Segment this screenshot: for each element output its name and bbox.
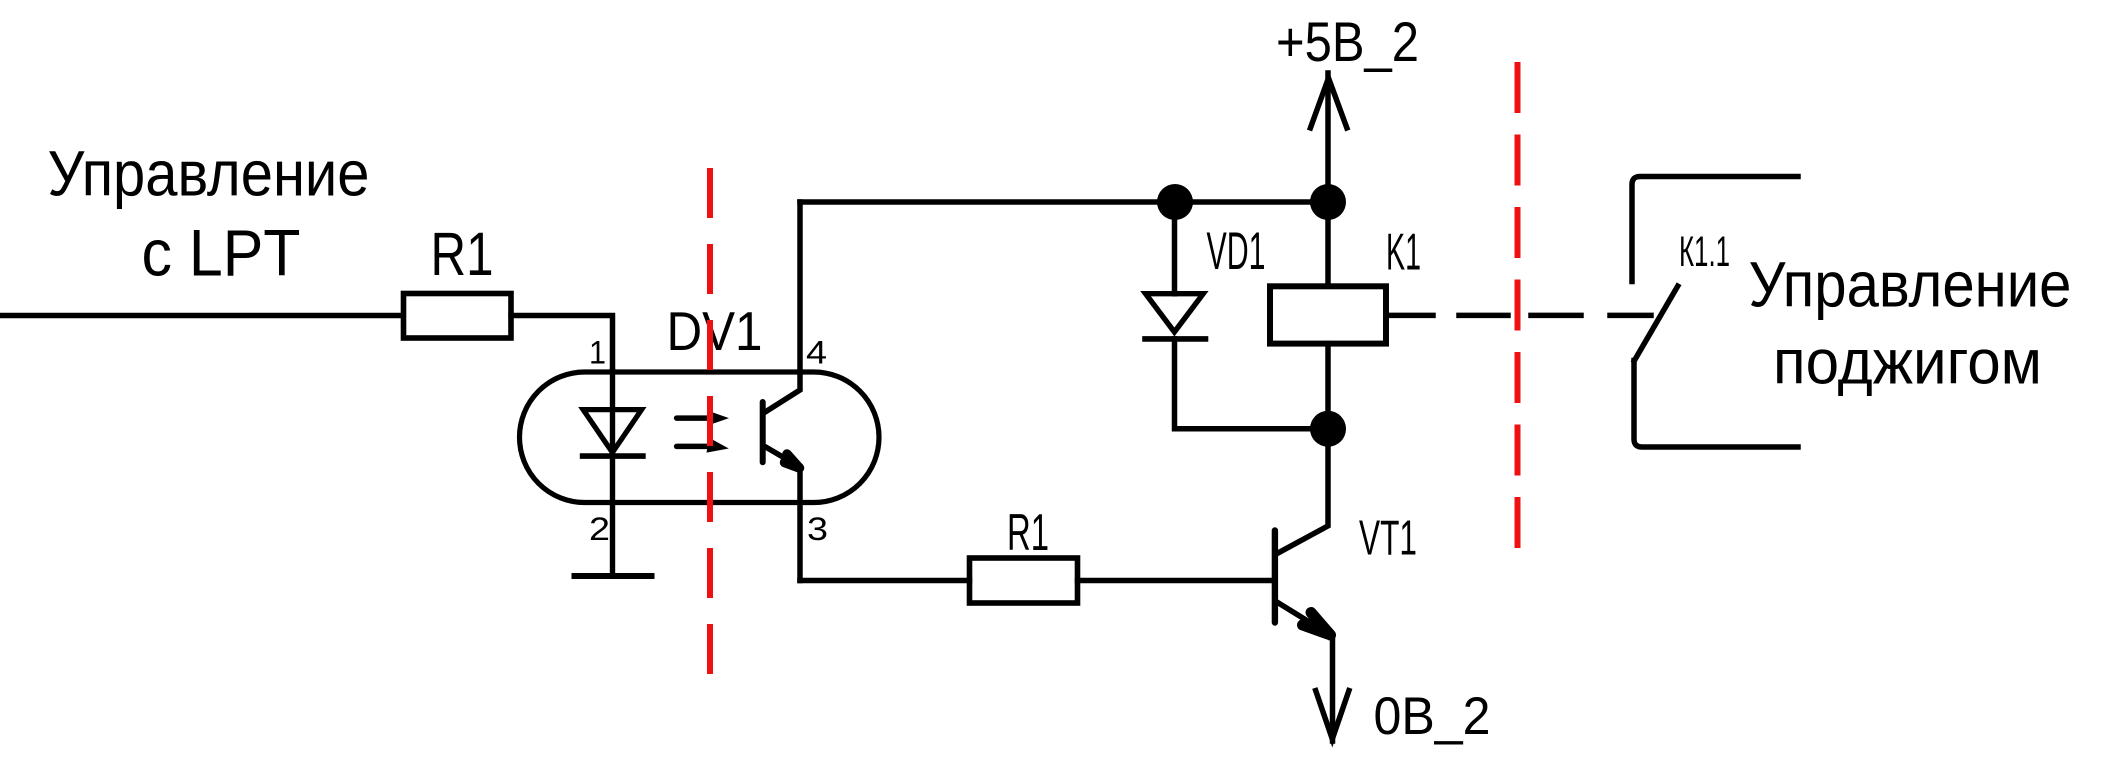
separator dashed red right	[1515, 62, 1521, 550]
light arrow lower	[677, 444, 707, 450]
ground	[575, 573, 652, 579]
junction node top-right	[1310, 184, 1346, 220]
light arrowhead upper	[707, 411, 729, 426]
diode VD1 triangle	[1146, 294, 1204, 332]
svg-text:VD1: VD1	[1207, 222, 1266, 281]
svg-text:Управление: Управление	[48, 138, 370, 210]
junction node top-left	[1157, 184, 1193, 220]
resistor R1 (base)	[970, 558, 1078, 603]
svg-text:3: 3	[807, 511, 828, 547]
phototransistor base bar	[760, 402, 766, 462]
transistor VT1 collector	[1276, 429, 1328, 554]
relay K1 coil box	[1270, 286, 1386, 343]
svg-text:Управление: Управление	[1749, 249, 2072, 321]
svg-text:0В_2: 0В_2	[1374, 687, 1491, 746]
light arrowhead lower	[707, 438, 729, 453]
contact K1.1 bottom terminal	[1634, 361, 1798, 448]
svg-text:1: 1	[589, 334, 606, 370]
diode VD1 cathode bar	[1145, 336, 1206, 342]
svg-text:R1: R1	[431, 220, 494, 288]
wire input from LPT	[2, 313, 403, 319]
diode VD1 vertical wire top	[1172, 202, 1178, 294]
transistor VT1 emitter arrowhead	[1303, 613, 1331, 636]
contact K1.1 top terminal	[1632, 177, 1798, 282]
light arrow upper	[677, 415, 707, 421]
wire top rail	[800, 199, 1328, 205]
svg-text:К1.1: К1.1	[1679, 228, 1730, 275]
relay K1 wire top	[1325, 202, 1331, 286]
diode VD1 wire bottom	[1175, 339, 1329, 429]
wire R1 to VT1 base	[1078, 578, 1275, 584]
phototransistor collector	[765, 202, 801, 413]
junction node bottom	[1310, 411, 1346, 447]
relay K1 wire bottom	[1325, 344, 1331, 429]
relay K1 right lead	[1386, 313, 1433, 319]
svg-text:R1: R1	[1007, 504, 1049, 562]
wire R1 to optocoupler pin 1	[511, 316, 613, 372]
arrow +5V head	[1310, 78, 1348, 131]
LED diode of DV1	[583, 410, 642, 453]
svg-text:K1: K1	[1386, 223, 1421, 281]
transistor VT1 base bar	[1272, 531, 1278, 623]
arrow 0V_2 head	[1315, 688, 1350, 739]
svg-text:4: 4	[806, 334, 827, 370]
wire pin3 to R1	[800, 578, 970, 584]
contact K1.1 blade	[1634, 286, 1677, 360]
svg-text:2: 2	[589, 511, 610, 547]
LED cathode bar	[583, 453, 643, 459]
svg-text:с LPT: с LPT	[142, 215, 301, 289]
resistor R1 (input)	[404, 294, 512, 339]
wire LED anode/cathode vertical	[610, 371, 615, 576]
transistor VT1 emitter	[1276, 602, 1333, 742]
svg-text:поджигом: поджигом	[1773, 328, 2042, 398]
phototransistor emitter	[764, 446, 800, 581]
separator dashed red left	[707, 168, 713, 674]
svg-text:VT1: VT1	[1359, 511, 1417, 566]
mechanical link dashed	[1459, 313, 1651, 319]
svg-text:DV1: DV1	[667, 301, 763, 362]
optocoupler DV1 body	[520, 372, 880, 503]
phototransistor emitter arrowhead	[785, 454, 800, 468]
svg-text:+5В_2: +5В_2	[1276, 11, 1419, 73]
wire +5V vertical	[1325, 73, 1331, 202]
